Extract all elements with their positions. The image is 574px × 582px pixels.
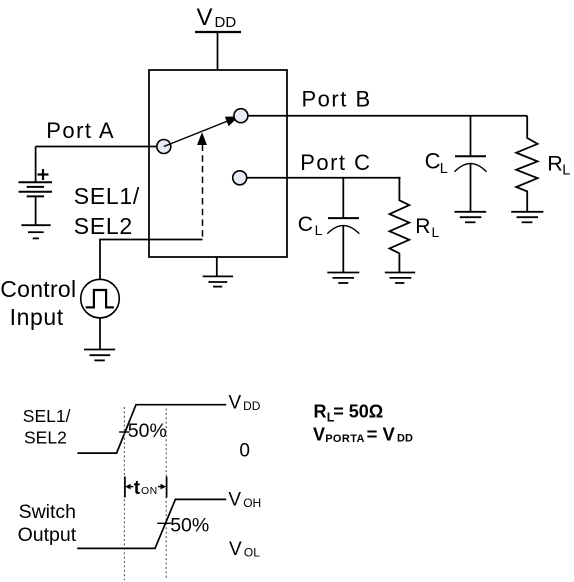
dashed actuation line <box>202 145 204 240</box>
svg-text:OL: OL <box>244 546 260 560</box>
svg-text:Input: Input <box>10 304 64 330</box>
svg-text:Switch: Switch <box>19 501 76 523</box>
node Port C (switch throw) <box>233 171 247 185</box>
timing: output waveform <box>77 499 226 548</box>
ground (pulse source) <box>84 350 115 361</box>
tON left arrow <box>129 486 134 488</box>
battery plates <box>19 182 53 196</box>
svg-text:V: V <box>229 393 242 414</box>
svg-text:L: L <box>562 163 570 179</box>
control wire from pulse source <box>100 240 203 280</box>
capacitor CL (Port B) curved plate <box>455 164 487 172</box>
svg-text:V: V <box>313 425 325 445</box>
capacitor CL (Port B) bottom lead <box>470 164 472 212</box>
tON label <box>134 478 158 499</box>
svg-text:L: L <box>315 222 323 238</box>
svg-text:V: V <box>197 4 213 31</box>
svg-text:Output: Output <box>18 524 77 546</box>
svg-text:Control: Control <box>0 276 76 302</box>
svg-text:t: t <box>134 478 141 499</box>
switch arm arrowhead <box>225 116 239 126</box>
note RL = 50 ohm <box>314 401 384 424</box>
svg-text:DD: DD <box>397 433 413 445</box>
timing: SEL1/SEL2 label <box>23 406 71 448</box>
ground (Port B RL) <box>511 212 543 223</box>
timing: output 50% tick <box>157 522 171 524</box>
timing: SEL 50% tick <box>119 431 129 433</box>
svg-text:C: C <box>425 148 441 173</box>
svg-text:V: V <box>229 539 242 560</box>
node Port B (switch throw) <box>234 109 248 123</box>
node Port A (switch pole) <box>157 140 171 154</box>
capacitor CL (Port C) top plate <box>328 217 359 219</box>
svg-text:50%: 50% <box>128 420 167 442</box>
VDD power bar <box>195 31 241 33</box>
svg-text:L: L <box>440 161 448 177</box>
pulse source V1 <box>81 279 120 318</box>
svg-text:DD: DD <box>243 399 261 413</box>
capacitor CL (Port C) lead <box>342 178 344 218</box>
svg-text:V: V <box>228 490 241 511</box>
capacitor CL (Port B) top plate <box>455 155 486 157</box>
battery B1 top lead <box>35 147 37 183</box>
svg-text:50%: 50% <box>170 515 209 537</box>
wire battery to Port A node <box>36 146 157 148</box>
battery bottom lead <box>35 196 37 225</box>
svg-text:PORTA: PORTA <box>325 433 365 445</box>
dotted cursor left <box>123 407 125 580</box>
ground (box) <box>203 276 233 286</box>
note VPORTA = VDD <box>313 424 413 446</box>
svg-text:C: C <box>298 213 313 236</box>
ground (Port B CL) <box>455 212 487 223</box>
pulse glyph <box>86 290 114 307</box>
svg-text:= V: = V <box>367 424 396 445</box>
svg-text:SEL2: SEL2 <box>74 213 133 239</box>
resistor RL (Port C) <box>390 178 410 273</box>
svg-text:= 50Ω: = 50Ω <box>333 401 383 421</box>
actuation arrowhead <box>197 132 207 145</box>
svg-text:Port C: Port C <box>300 150 371 175</box>
svg-text:DD: DD <box>215 14 237 31</box>
battery plus sign <box>38 169 49 180</box>
box bottom lead <box>216 257 218 276</box>
svg-text:Port A: Port A <box>46 118 115 143</box>
RL label (Port C) <box>415 215 439 240</box>
svg-text:R: R <box>314 401 327 421</box>
svg-text:ON: ON <box>141 485 158 497</box>
CL label (Port B) <box>425 148 448 177</box>
wire VDD to box <box>217 32 219 70</box>
capacitor CL (Port B) lead <box>470 116 472 157</box>
wire Port C <box>247 177 401 179</box>
switch arm <box>164 119 233 147</box>
svg-text:Port B: Port B <box>302 87 372 112</box>
pulse source bottom lead <box>99 318 101 350</box>
ground (battery) <box>21 225 50 238</box>
VDD label <box>197 4 237 31</box>
svg-text:SEL1/: SEL1/ <box>23 406 71 426</box>
timing: VDD level label <box>229 393 261 414</box>
svg-text:R: R <box>415 215 430 238</box>
timing: VOH level label <box>228 490 261 511</box>
timing: VOL level label <box>229 539 260 560</box>
tON left bar <box>124 477 126 498</box>
ground (Port C CL) <box>327 273 359 284</box>
svg-text:0: 0 <box>239 441 250 462</box>
dotted cursor right <box>165 409 167 581</box>
wire Port B <box>248 115 527 117</box>
timing: Switch Output label <box>18 501 77 546</box>
timing: SEL waveform <box>77 405 226 453</box>
svg-text:R: R <box>547 151 563 175</box>
tON right arrow <box>158 486 163 488</box>
resistor RL (Port B) <box>516 116 537 212</box>
capacitor CL (Port C) bottom lead <box>342 225 344 272</box>
svg-text:L: L <box>432 224 440 240</box>
RL label (Port B) <box>547 151 570 178</box>
Control Input label <box>0 276 76 330</box>
svg-text:SEL1/: SEL1/ <box>74 183 140 209</box>
ground (Port C RL) <box>385 273 415 284</box>
capacitor CL (Port C) curved plate <box>327 226 359 234</box>
tON right bar <box>166 477 168 498</box>
switch box U1 <box>149 70 287 257</box>
CL label (Port C) <box>298 213 323 238</box>
SEL1/SEL2 label <box>74 183 140 239</box>
svg-text:OH: OH <box>243 496 261 510</box>
svg-text:SEL2: SEL2 <box>24 427 67 447</box>
